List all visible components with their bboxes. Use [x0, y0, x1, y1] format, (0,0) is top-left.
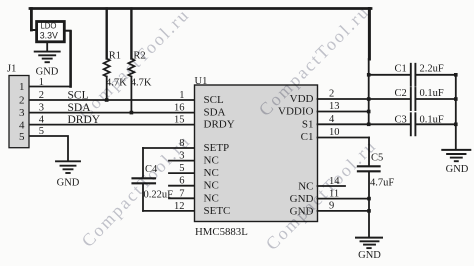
capacitor C5 4.7uF: [358, 166, 380, 171]
label C2: [395, 88, 407, 99]
ground at J1 pin 5: [56, 161, 80, 173]
wire VDD U1.2 to rail and C2: [318, 98, 411, 100]
wire SDA net J1.3 to U1.16: [29, 112, 195, 114]
pin name VDDIO U1: [278, 106, 313, 118]
pin number U1.6: [179, 176, 184, 187]
pin number 5 at pin5 wire: [39, 126, 44, 137]
pin name NC U1.3: [204, 155, 219, 167]
pin number U1.7: [179, 188, 184, 199]
value 0.1uF of C3: [420, 114, 444, 125]
node junction C3-gnd bus: [454, 123, 458, 127]
wire C5 to ground: [368, 172, 370, 237]
svg-text:CompactTool.ru: CompactTool.ru: [255, 1, 374, 120]
label R2: [133, 51, 145, 62]
label U1: [195, 76, 208, 87]
value 4.7K of R2: [131, 77, 152, 88]
wire GND U1.11: [318, 198, 370, 200]
pin number J1.5 inside: [19, 131, 25, 143]
pin name SDA U1: [204, 107, 226, 119]
wire J1 pin 1 row: [29, 86, 71, 88]
wire GND U1.9: [318, 210, 370, 212]
regulator LDO 3.3V: [37, 22, 65, 42]
pin name SETP U1: [204, 142, 230, 154]
pin number 3 at SDA wire: [39, 103, 44, 114]
pin name DRDY U1: [204, 119, 235, 131]
node junction R2-SDA: [130, 111, 134, 115]
capacitor C2 0.1uF: [411, 88, 416, 110]
label HMC5883L: [195, 226, 248, 238]
label R1: [109, 51, 121, 62]
wire C1 pin U1.10 to C5: [318, 138, 370, 166]
wire SETP U1.8 to C4: [143, 148, 195, 177]
pin number U1.12: [174, 201, 185, 212]
capacitor C3 0.1uF: [411, 113, 416, 135]
value 4.7K of R1: [106, 77, 127, 88]
label GND under LDO: [36, 67, 59, 78]
label C4: [145, 164, 158, 175]
label J1: [7, 64, 16, 75]
svg-text:CompactTool.ru: CompactTool.ru: [75, 4, 194, 123]
wire right ground bus: [455, 75, 457, 150]
node junction rail-VDDIO: [367, 110, 371, 114]
ground under LDO: [35, 43, 60, 62]
value 0.1uF of C2: [420, 88, 444, 99]
pin number U1.9: [329, 200, 334, 211]
pin number J1.3 inside: [19, 107, 25, 119]
wire SCL net J1.2 to U1.1: [29, 99, 195, 101]
label LDO: [40, 22, 58, 41]
pin number U1.3: [179, 151, 184, 162]
node junction rail-VDD: [367, 97, 371, 101]
ground bottom center: [356, 238, 382, 249]
IC U1 HMC5883L body: [195, 85, 318, 222]
pin number U1.16: [174, 103, 185, 114]
wire NC stub U1.6: [169, 185, 195, 187]
pin name NC U1.7: [204, 192, 219, 204]
wire C4 to SETC U1.12: [143, 184, 195, 211]
value 4.7uF of C5: [370, 178, 394, 189]
wire NC stub U1.5: [169, 172, 195, 174]
wire C2 right: [416, 98, 456, 100]
wire DRDY net J1.4 to U1.15: [29, 124, 195, 126]
pin name S1 U1: [302, 118, 314, 130]
pin name C1 U1: [301, 131, 314, 143]
pin number U1.13: [329, 101, 340, 112]
wire NC stub U1.7: [169, 197, 195, 199]
pin number 4 at DRDY wire: [39, 115, 45, 126]
node junction rail-S1: [367, 123, 371, 127]
pin name SCL U1: [204, 94, 224, 106]
wire C3 right: [416, 123, 456, 125]
wire J1 pin 5 to ground: [29, 136, 68, 161]
node junction R1-SCL: [105, 98, 109, 102]
ground right of C3: [442, 150, 470, 161]
node junction C1-gnd bus: [454, 73, 458, 77]
value 2.2uF of C1: [420, 64, 444, 75]
wire VDDIO U1.13 to rail: [318, 111, 369, 113]
label C1: [395, 64, 407, 75]
node junction GND11: [367, 197, 371, 201]
label GND at J1 pin5 ground: [57, 178, 80, 189]
net label SCL: [68, 89, 89, 101]
wire C1 row: [369, 74, 456, 76]
value 0.22uF of C4: [144, 190, 174, 201]
node junction C2-gnd bus: [454, 97, 458, 101]
label C5: [371, 153, 383, 164]
label GND right: [446, 164, 469, 175]
pin number U1.5: [179, 163, 184, 174]
pin number U1.2: [329, 89, 334, 100]
node junction rail-C1: [367, 73, 371, 77]
capacitor C1 2.2uF: [411, 64, 416, 86]
resistor R1 pull-up on SCL: [104, 9, 110, 101]
capacitor C4 0.22uF: [133, 178, 156, 183]
connector J1 body: [9, 76, 29, 148]
pin number U1.8: [179, 138, 184, 149]
net label DRDY: [68, 114, 101, 126]
pin name VDD U1: [290, 93, 314, 105]
pin name NC U1.14: [298, 181, 313, 193]
pin number 1 at pin1 wire: [39, 77, 44, 88]
pin name GND U1.11: [290, 193, 314, 205]
pin number J1.4 inside: [19, 119, 25, 131]
wire S1 U1.4 to C3: [318, 123, 411, 125]
pin name NC U1.6: [204, 180, 219, 192]
wire NC stub U1.14: [318, 185, 346, 187]
wire rail left drop to LDO input: [31, 9, 35, 31]
wire NC stub U1.3: [169, 160, 195, 162]
pin number J1.2 inside: [19, 95, 25, 107]
pin number U1.4: [329, 114, 335, 125]
label GND bottom center: [358, 250, 381, 261]
pin number U1.10: [329, 127, 340, 138]
pin number U1.1: [179, 90, 184, 101]
pin name SETC U1: [204, 205, 231, 217]
label C3: [395, 114, 407, 125]
svg-text:CompactTool.ru: CompactTool.ru: [262, 135, 381, 254]
node junction GND9: [367, 209, 371, 213]
wire LDO output down to J1 pin 1: [64, 31, 71, 87]
pin number 2 at SCL wire: [39, 90, 44, 101]
pin number U1.15: [174, 115, 185, 126]
wire rail right drop: [367, 9, 371, 125]
pin name GND U1.9: [290, 205, 314, 217]
svg-text:CompactTool.ru: CompactTool.ru: [77, 130, 194, 250]
pin name NC U1.5: [204, 167, 219, 179]
wire 3.3V top rail: [30, 7, 371, 10]
pin number J1.1 inside: [19, 81, 25, 93]
pin number U1.14: [329, 176, 340, 187]
pin number U1.11: [329, 189, 339, 200]
net label SDA: [68, 102, 92, 114]
resistor R2 pull-up on SDA: [128, 9, 134, 113]
